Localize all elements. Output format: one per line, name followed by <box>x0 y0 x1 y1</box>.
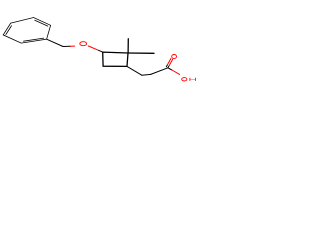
bond CH2b to carboxyl C <box>151 68 168 75</box>
benzene double bond E-A inner line <box>6 26 12 35</box>
bond ipso C to benzyl CH2 <box>47 39 63 46</box>
bond benzyl CH2 to ether O (red part) <box>70 45 74 47</box>
bond carboxyl C to OH (black part) <box>168 68 172 70</box>
bond CH2a to CH2b <box>142 73 151 76</box>
C=O double bond line 2 (black part) <box>166 65 167 67</box>
ether O label <box>80 42 87 46</box>
C=O double bond line 1 (black part) <box>168 66 169 68</box>
benzene double bond B-C inner line <box>35 20 48 26</box>
methyl bond up from C2 <box>127 39 129 53</box>
bond ether O to cyclobutane C3 (red part) <box>88 46 98 50</box>
benzene double bond F-D inner line <box>24 38 44 41</box>
methyl bond right from C2 <box>128 52 154 54</box>
bond ether O to cyclobutane C3 (black part) <box>99 50 103 52</box>
benzene ring <box>3 18 50 44</box>
bond cyclobutane C1 to CH2a <box>127 66 142 75</box>
C=O double bond line 2 (red part) <box>168 59 171 65</box>
hydroxyl OH label (H glyph) <box>190 78 196 81</box>
bond carboxyl C to OH (red part) <box>172 70 180 74</box>
carbonyl O label <box>172 55 177 59</box>
hydroxyl OH label (O glyph) <box>182 78 187 81</box>
bond benzyl CH2 to ether O (black part) <box>63 45 70 47</box>
cyclobutane ring <box>103 52 128 66</box>
C=O double bond line 1 (red part) <box>169 59 173 65</box>
